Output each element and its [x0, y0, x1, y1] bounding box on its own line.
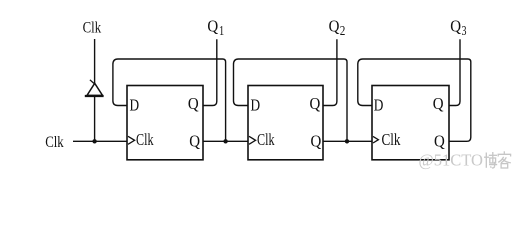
wire U2 Qbar to U3 clock	[323, 140, 372, 142]
svg-text:Q: Q	[329, 17, 340, 36]
wire U3 Q output stub up to node Q3	[449, 39, 460, 105]
flip-flop U2 box	[248, 86, 323, 160]
svg-text:Clk: Clk	[83, 20, 102, 37]
svg-text:D: D	[374, 96, 384, 115]
svg-text:Q: Q	[433, 94, 444, 113]
U1 clock edge symbol	[128, 136, 135, 144]
svg-text:Clk: Clk	[257, 130, 275, 149]
wire U2 Q output stub up to node Q2	[323, 39, 337, 105]
svg-text:@51CTO: @51CTO	[419, 150, 484, 169]
svg-text:Clk: Clk	[45, 134, 64, 151]
U2 clock edge symbol	[249, 136, 256, 144]
U3 clock edge symbol	[373, 136, 378, 143]
svg-text:Clk: Clk	[136, 130, 154, 149]
flip-flop U3 box	[372, 86, 449, 160]
svg-text:Clk: Clk	[382, 130, 402, 149]
svg-text:D: D	[130, 96, 140, 115]
svg-text:Q: Q	[450, 17, 461, 36]
junction clock bus dot	[92, 139, 96, 143]
wire U1 Q output stub up to node Q1	[203, 39, 217, 105]
wire U1 Qbar to U2 clock	[203, 140, 248, 142]
wire U3 feedback loop Qbar to D	[358, 59, 471, 141]
watermark glyph ke	[498, 151, 511, 168]
svg-text:1: 1	[219, 24, 224, 39]
svg-text:Q: Q	[188, 94, 199, 113]
svg-text:D: D	[251, 96, 261, 115]
svg-text:Q: Q	[310, 94, 321, 113]
arrowhead on clock wire	[90, 80, 94, 84]
flip-flop U1 box	[127, 86, 203, 160]
svg-text:Q: Q	[311, 132, 322, 151]
wire Clk horizontal into U1 clock input	[73, 140, 127, 142]
svg-text:3: 3	[462, 24, 467, 39]
buffer triangle on clock line	[87, 83, 103, 95]
wire U2 feedback loop Qbar to D	[234, 59, 348, 141]
svg-text:2: 2	[340, 24, 346, 39]
junction U2 feedback on Qbar wire	[345, 139, 349, 143]
wire clock vertical from Clk label to clock bus	[94, 39, 96, 141]
wire U1 feedback loop Qbar to D	[113, 59, 226, 141]
svg-text:Q: Q	[434, 132, 445, 151]
svg-text:Q: Q	[207, 17, 218, 36]
watermark glyph bo	[484, 152, 497, 168]
svg-text:Q: Q	[189, 132, 200, 151]
junction U1 feedback on Qbar wire	[223, 139, 227, 143]
